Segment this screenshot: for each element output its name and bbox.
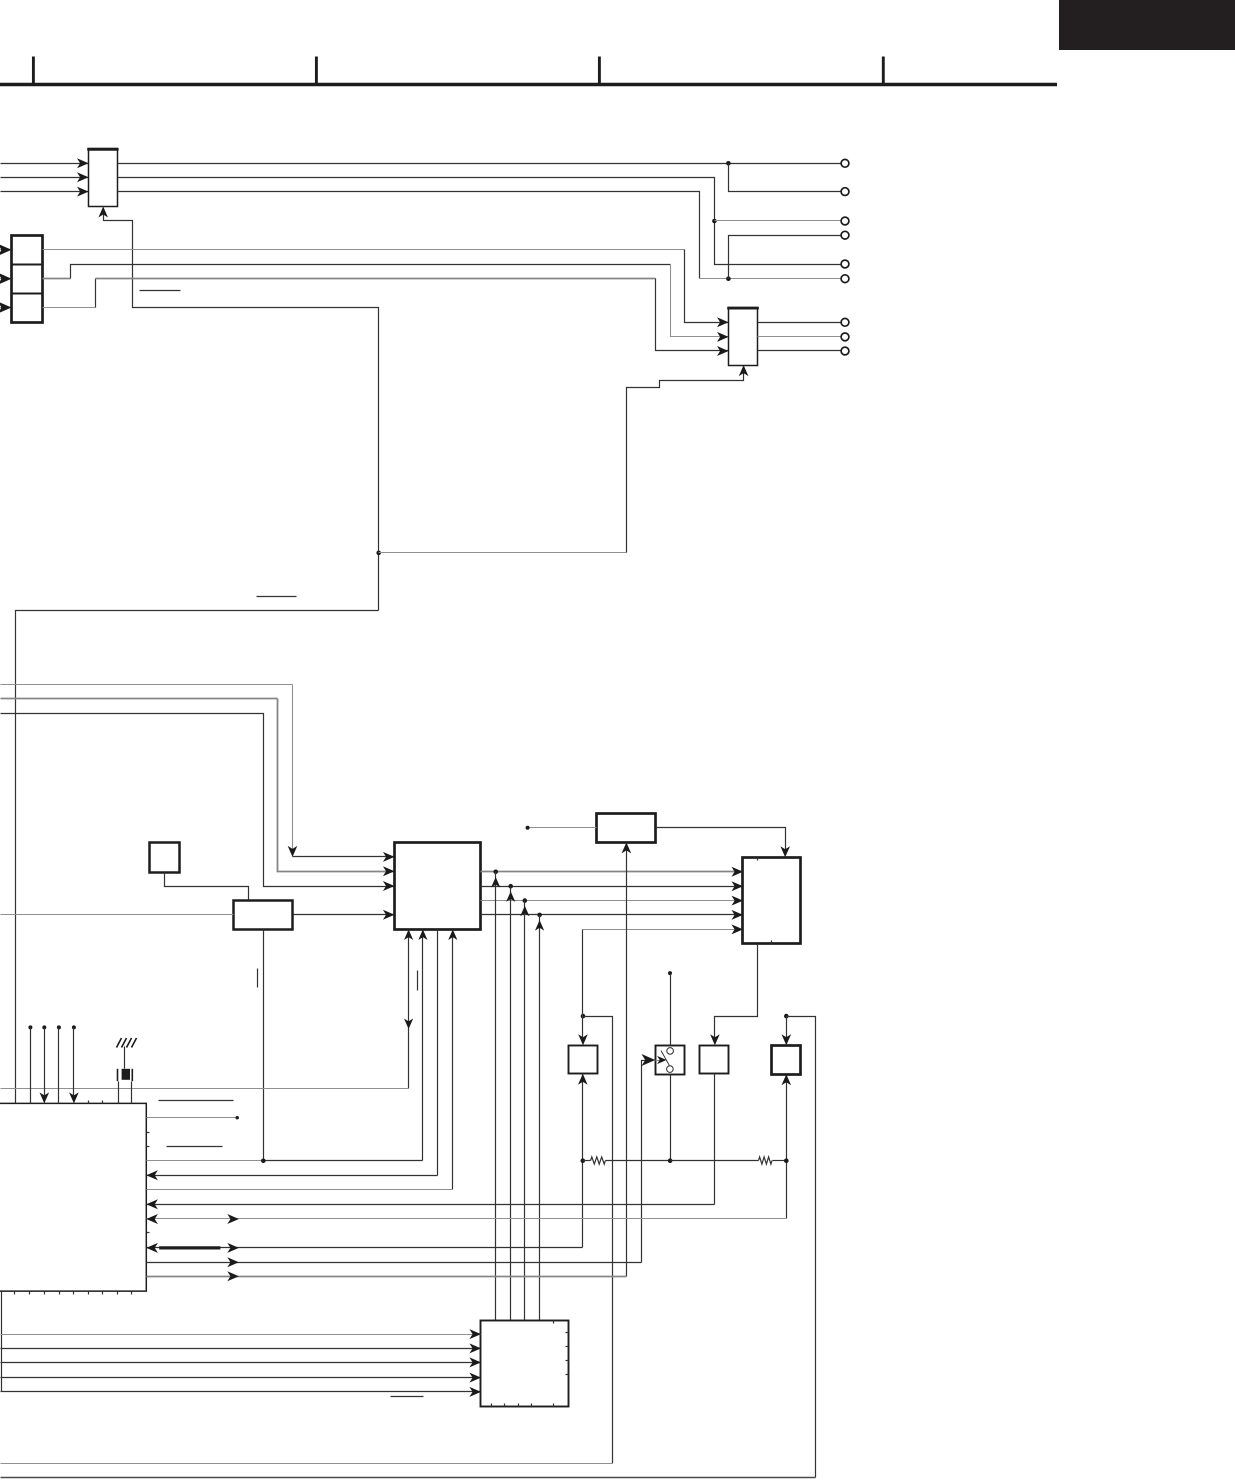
resonator X1	[117, 1069, 119, 1081]
IC pin P8 wire to SW1 control	[147, 1262, 642, 1264]
title strip rule line	[0, 83, 1057, 86]
IC right edge pin ticks	[147, 1132, 150, 1134]
vertical bus line from U3 out3 down to U8 top	[524, 901, 526, 1321]
resistor R1	[583, 1160, 591, 1162]
wire net B1: CN1 cell1 to U2 input 1 (gray)	[43, 249, 685, 251]
wire U5 bottom drop to IC pin line	[263, 930, 265, 1161]
gray return line to left edge	[1, 1088, 409, 1090]
wire U3 out1 (thick gray) to U6 input 1	[481, 871, 743, 873]
wire long run to IC pin (left edge)	[16, 611, 379, 1104]
SW1 contact circle bottom	[667, 1066, 674, 1073]
wire U11 bottom to IC pin row	[786, 1075, 788, 1219]
IC U12 (microcontroller, cut at page edge)	[0, 1103, 146, 1291]
block SW1 (switch box)	[656, 1046, 685, 1075]
block U6 (output driver)	[743, 858, 801, 944]
resistor row junction left	[581, 1158, 586, 1163]
bus wire into U8 input 3	[1, 1362, 481, 1364]
resistor row junction right	[784, 1158, 789, 1163]
block U3 (signal processor)	[395, 843, 481, 930]
IC pin P9 wire (thick gray) to U7 bottom vertical	[147, 1276, 627, 1278]
wire U1 control (from node row below)	[104, 214, 379, 611]
block U1 (buffer, top-left)	[89, 149, 118, 207]
wire net A3 branch up to terminal J4	[729, 236, 841, 279]
title strip tick 4	[882, 57, 885, 85]
resistor R2	[671, 1160, 759, 1162]
wire U3 bottom pin 2 down to IC pin row	[422, 930, 424, 1161]
SW1 contact circle top	[667, 1048, 674, 1055]
label dash IC right 1	[159, 1100, 234, 1102]
IC bottom-left edge pin line	[1, 1292, 3, 1392]
label underline dash mid-left	[257, 596, 297, 598]
wire U9 bottom to resistor row and IC pin	[582, 1074, 584, 1248]
wire net A2 branch to terminal J3 (gray)	[715, 220, 841, 222]
net F: junction to U11 top / long drop right	[784, 1014, 789, 1019]
wire U7 out to U6 top	[656, 828, 786, 851]
bus wire into U8 input 1 (light gray)	[1, 1334, 481, 1336]
wire CN1 input 1	[1, 249, 12, 251]
resonator X1 legs to IC	[118, 1082, 120, 1104]
wire U1 input 1	[1, 163, 89, 165]
block U9 (small box)	[569, 1046, 598, 1074]
label dash (vertical) below U5	[257, 969, 259, 988]
title strip tick 2	[315, 57, 318, 85]
wire net B3: CN1 cell3 steps up, long gray run to U2 input 3	[43, 307, 96, 309]
IC top pin stub with dot d (arrow)	[72, 1025, 76, 1029]
IC pin P6 wire (gray, bidir arrows) to U11 bottom	[147, 1218, 787, 1220]
vertical bus line from U3 out4 down to U8 top	[539, 915, 541, 1321]
terminal J7	[841, 318, 849, 326]
wire U3 out2 to U6 input 2	[481, 886, 743, 888]
wire CN1 input 2	[1, 278, 12, 280]
title strip tick 3	[598, 57, 601, 85]
wire into U5 from left edge (gray)	[1, 914, 234, 916]
IC top pin stub with dot c	[57, 1025, 61, 1029]
wire U3 out3 (gray) to U6 input 3	[481, 900, 743, 902]
IC top pin stub with dot a	[28, 1025, 32, 1029]
vertical bus line from U3 out1 down to U8 top	[495, 872, 497, 1321]
terminal J6	[841, 275, 849, 283]
block U2 (output selector)	[729, 308, 758, 366]
IC pin P5 wire (arrow into IC) to U10 bottom	[147, 1204, 715, 1206]
vertical bus line from U3 out2 down to U8 top	[510, 887, 512, 1321]
SW1 lever	[661, 1051, 669, 1066]
wire net C3 into U3 input 3	[1, 714, 395, 887]
wire SW1 bottom to resistor row	[670, 1075, 672, 1161]
terminal J1	[841, 159, 849, 167]
wire net A2: U1 out2 bends down to terminal J5	[118, 178, 841, 265]
bus wire into U8 input 4	[1, 1377, 481, 1379]
wire net A1: U1 out1 to terminal J1 with junction	[118, 163, 841, 165]
stub with dot above SW1	[668, 971, 672, 975]
wire net D5 (gray) into U6 input 5	[583, 929, 743, 931]
wire U5 to U3 input 4	[294, 914, 395, 916]
label dash IC right 2	[167, 1146, 223, 1148]
wire U1 input 2	[1, 177, 89, 179]
terminal J4	[841, 231, 849, 239]
terminal J5	[841, 260, 849, 268]
block CN1 (3-section connector, left)	[12, 236, 43, 323]
resistor row junction mid	[668, 1158, 673, 1163]
IC pin P2 wire to U3 bottom (junction with U5 drop)	[147, 1160, 264, 1162]
wire U1 input 3	[1, 191, 89, 193]
SW1 inner actuate arrow (gray shaft)	[656, 1060, 663, 1062]
IC pin P7 wire (arrow into IC, bold label bar) to U9 bottom	[147, 1247, 583, 1249]
ground symbol above resonator	[117, 1038, 137, 1048]
label dash (vertical) below U3	[417, 971, 419, 991]
wire U2 control path (from node at control vertical)	[379, 552, 627, 554]
block U11 (small box, bold)	[772, 1046, 801, 1075]
IC pin P3 wire (arrow into IC) to U3 bottom	[147, 1175, 438, 1177]
wire net B2: CN1 cell2 steps up and runs to U2 input 2	[43, 278, 71, 280]
block U4 (small square)	[150, 843, 180, 873]
stub with endpoint dot into U7 (gray)	[528, 827, 597, 829]
wire net C2 (thick gray) into U3 input 2	[1, 698, 278, 700]
label underline dash near CN1	[140, 290, 181, 292]
block U8 (bottom interface)	[481, 1321, 569, 1407]
U8 pin ticks	[553, 1321, 555, 1324]
wire net A1 branch down to terminal J2	[729, 164, 841, 192]
bottom return line 2	[1, 1477, 816, 1479]
title block header bar (black)	[1059, 0, 1235, 50]
bottom return line 1 (gray)	[1, 1463, 613, 1465]
bus wire into U8 input 5	[1, 1391, 481, 1393]
IC pin P1 stub (gray) with end dot	[147, 1117, 237, 1119]
terminal J3	[841, 217, 849, 225]
label dash under bus	[391, 1396, 424, 1398]
IC unused top pin ticks	[88, 1101, 90, 1104]
junction on control vertical	[376, 551, 381, 556]
wire U2 out2 to terminal J8 (gray)	[758, 336, 841, 338]
wire U2 out3 to terminal J9	[758, 350, 841, 352]
terminal J2	[841, 188, 849, 196]
IC pin P4 wire (gray) to U3 bottom	[147, 1189, 453, 1191]
wire U3 bottom pin 3 down (no arrow)	[437, 930, 439, 1176]
wire U4 to U5 top	[165, 873, 249, 901]
wire U6 bottom to U10 top	[715, 944, 758, 1039]
wire net C1 (gray) into U3 input 1 with direction arrow	[1, 684, 293, 686]
wire U7 bottom control (long vertical from IC pin row)	[626, 843, 628, 1277]
title strip tick 1	[32, 57, 35, 85]
IC bottom pin ticks	[14, 1292, 16, 1295]
wire SW1 control from IC pin row	[642, 1061, 649, 1263]
wire U3 bottom pin 4 down	[452, 930, 454, 1190]
terminal J9	[841, 347, 849, 355]
net E: junction to U8 in5 / U9 top / long drop	[581, 1014, 586, 1019]
terminal J8	[841, 333, 849, 341]
block U10 (small box)	[700, 1046, 729, 1074]
bus wire into U8 input 2	[1, 1348, 481, 1350]
block U7 (wide box)	[597, 814, 656, 843]
wire net A3: U1 out3 bends down (gray to terminal J6)	[118, 192, 700, 279]
block U5 (small wide box on line)	[234, 901, 293, 930]
wire U3 bottom pin 1 down to gray return line	[408, 930, 410, 1089]
wire U3 out4 to U6 input 4	[481, 914, 743, 916]
U6 pin ticks	[757, 858, 759, 861]
wire U10 bottom to IC pin row	[714, 1074, 716, 1205]
wire U2 out1 to terminal J7	[758, 322, 841, 324]
wire CN1 input 3	[1, 307, 12, 309]
IC top pin stub with dot b (arrow)	[42, 1025, 46, 1029]
